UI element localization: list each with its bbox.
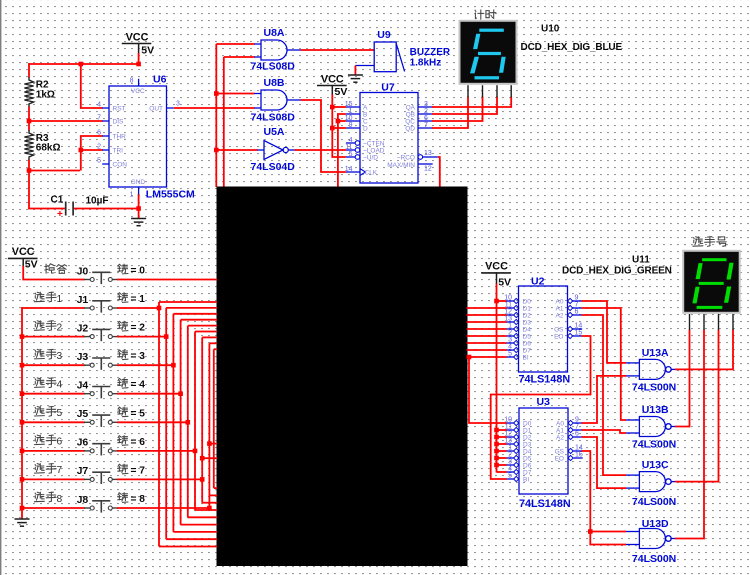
wire riser 3 bottom	[173, 531, 217, 533]
svg-text:D1: D1	[523, 306, 532, 313]
svg-text:4: 4	[508, 344, 512, 351]
label J6	[77, 438, 89, 449]
U13C output stub	[671, 481, 676, 483]
wire VCC to J0	[23, 258, 85, 279]
svg-text:DCD_HEX_DIG_GREEN: DCD_HEX_DIG_GREEN	[562, 265, 672, 276]
wire U13D out to U11	[675, 330, 704, 539]
svg-text:QB: QB	[406, 112, 415, 119]
pin 3 OUT stub	[167, 101, 181, 109]
svg-text:4: 4	[57, 380, 63, 391]
U7 CLK pin stub	[345, 166, 366, 176]
svg-text:J5: J5	[77, 409, 89, 420]
ground (switch bus)	[15, 519, 30, 526]
label 键 = 0	[118, 264, 128, 274]
wire riser 4 vertical	[180, 320, 182, 525]
label R3 value 68kΩ	[36, 133, 61, 154]
svg-text:5V: 5V	[25, 258, 38, 270]
buzzer U9 body	[374, 42, 404, 72]
svg-text:5V: 5V	[335, 86, 348, 98]
wire THR/TRI to bus	[29, 170, 80, 172]
nand-gate U13C body	[639, 472, 671, 492]
wire J7 to riser	[117, 478, 202, 480]
U3 input pin stubs	[504, 417, 531, 484]
wire U2 EO to U3 BI	[491, 336, 591, 479]
wire bus to J6	[21, 450, 85, 452]
wire U7 QB to U10	[432, 97, 497, 115]
wire bus to J7	[21, 478, 85, 480]
svg-text:8: 8	[57, 494, 63, 505]
wire riser 2 vertical	[165, 308, 167, 539]
svg-text:J1: J1	[77, 295, 89, 306]
power VCC symbol (switches) 5V	[8, 246, 38, 258]
svg-text:= 8: = 8	[131, 494, 146, 505]
U10 pins	[468, 85, 511, 97]
wire riser 8 vertical	[208, 343, 210, 508]
svg-text:1: 1	[130, 192, 134, 199]
label 74LS08D (U8A)	[251, 60, 296, 72]
svg-text:EO: EO	[554, 334, 563, 341]
wire hidden to U2 D5	[467, 335, 507, 337]
label 选手1	[34, 292, 56, 302]
U2 input pin stubs	[504, 295, 531, 362]
wire U6 OUT to U8B	[174, 107, 255, 109]
wire VCC to U3 D6	[497, 464, 507, 466]
power VCC symbol (U7) 5V	[317, 73, 347, 85]
wire U8A out to buzzer	[301, 49, 375, 51]
and-gate U8B body	[261, 90, 287, 110]
svg-text:TRI: TRI	[113, 148, 124, 155]
label LM555CM	[146, 188, 195, 200]
pin 7 DIS stub	[97, 115, 109, 122]
junction riser J2	[164, 334, 169, 339]
label U10	[541, 23, 560, 34]
label J5	[77, 409, 89, 420]
label J2	[77, 323, 89, 334]
label 键 = 6	[118, 436, 128, 446]
svg-text:74LS00N: 74LS00N	[632, 553, 676, 565]
nand-gate U13A body	[639, 359, 671, 379]
junction riser J8	[207, 506, 212, 511]
wire TRI	[81, 149, 103, 151]
svg-text:U5A: U5A	[264, 126, 285, 138]
wire VCC to U3 D2	[497, 436, 507, 438]
label 选手号	[693, 237, 726, 247]
label U11	[632, 254, 650, 265]
display U10 digit 6 segments	[470, 29, 506, 80]
svg-text:D6: D6	[523, 341, 532, 348]
wire VCC to node	[138, 44, 140, 65]
svg-text:= 2: = 2	[131, 323, 146, 334]
svg-text:U3: U3	[537, 396, 551, 408]
wire riser 9 top	[214, 348, 217, 350]
svg-text:15: 15	[575, 452, 583, 459]
wire to U8A input1	[216, 43, 254, 45]
label U2	[531, 275, 545, 287]
svg-text:D: D	[363, 126, 368, 133]
resistor R2	[24, 77, 33, 107]
svg-text:68kΩ: 68kΩ	[36, 143, 61, 154]
svg-text:6: 6	[97, 130, 101, 137]
junction riser J6	[193, 449, 198, 454]
U7 control pin stubs CTEN LOAD U/D	[345, 137, 360, 160]
junction riser J7	[200, 477, 205, 482]
label BUZZER 1.8kHz	[410, 47, 451, 69]
svg-text:A2: A2	[556, 313, 564, 320]
label U8B	[264, 77, 285, 89]
svg-text:5V: 5V	[498, 276, 511, 288]
label 74LS00N (U13A)	[632, 382, 676, 394]
junction bus J2	[20, 334, 25, 339]
svg-text:QD: QD	[405, 126, 415, 133]
wire C1 left	[28, 208, 65, 210]
power VCC symbol (555 section) 5V	[122, 31, 152, 43]
junction THR/TRI node	[27, 168, 32, 173]
junction bus J6	[20, 449, 25, 454]
svg-text:J4: J4	[77, 381, 89, 392]
label 键 = 3	[118, 350, 128, 360]
svg-text:74LS08D: 74LS08D	[251, 112, 296, 124]
wire to U7 D	[332, 127, 346, 129]
svg-text:1: 1	[508, 445, 512, 452]
wire VCC to U3 D3	[497, 443, 507, 445]
svg-text:6: 6	[575, 431, 579, 438]
junction U7.D	[330, 126, 335, 131]
svg-text:= 4: = 4	[131, 380, 146, 391]
junction bus J8	[20, 506, 25, 511]
wire hidden to U2 D1	[467, 307, 507, 309]
svg-text:VCC: VCC	[131, 88, 145, 95]
svg-text:4: 4	[97, 102, 101, 109]
wire riser 9 vertical	[213, 349, 215, 488]
svg-text:D2: D2	[523, 435, 532, 442]
resistor R3	[24, 130, 33, 160]
canvas left border	[0, 0, 1, 575]
pin 1 GND stub	[130, 187, 139, 199]
wire riser 3 top	[173, 313, 217, 315]
wire node to U7 B	[338, 114, 346, 187]
U13C input stubs	[625, 475, 639, 488]
wire bus to J3	[21, 364, 85, 366]
svg-text:CON: CON	[113, 162, 128, 169]
svg-text:4: 4	[349, 137, 353, 144]
U8B input stubs	[254, 94, 261, 109]
svg-text:BI: BI	[523, 477, 529, 484]
encoder U3 74LS148N body	[519, 408, 568, 494]
svg-text:7: 7	[424, 122, 428, 129]
wire J5 to riser	[117, 421, 188, 423]
ground (555)	[131, 219, 146, 226]
wire riser 4 bottom	[181, 524, 217, 526]
label J1	[77, 295, 89, 306]
wire to U7 A	[332, 106, 346, 108]
wire riser 8 bottom	[209, 494, 217, 496]
switch J2	[84, 329, 118, 341]
label U7	[381, 81, 395, 93]
svg-text:7: 7	[575, 302, 579, 309]
junction bus J5	[20, 420, 25, 425]
svg-text:2: 2	[57, 322, 63, 333]
nand-gate U13D body	[639, 529, 671, 549]
svg-text:9: 9	[575, 295, 579, 302]
svg-text:U2: U2	[531, 275, 545, 287]
label U8A	[264, 27, 285, 39]
U9 lower pin stub	[355, 65, 374, 67]
label U13C	[642, 459, 669, 471]
svg-text:~CTEN: ~CTEN	[363, 141, 385, 148]
svg-text:74LS148N: 74LS148N	[519, 498, 571, 510]
svg-text:1.8kHz: 1.8kHz	[410, 58, 442, 69]
wire U8B out to U7 CLK	[301, 100, 346, 172]
wire hidden to U2 D2	[467, 314, 507, 316]
svg-text:D5: D5	[523, 334, 532, 341]
svg-text:GND: GND	[131, 179, 146, 186]
junction U2.BI node	[467, 355, 472, 360]
wire hidden tap 2	[200, 456, 217, 461]
wire VCC to U3 D4	[497, 450, 507, 452]
junction GND node	[136, 206, 141, 211]
svg-text:U13A: U13A	[642, 347, 669, 359]
svg-text:A0: A0	[556, 299, 564, 306]
label DCD_HEX_DIG_GREEN	[562, 265, 672, 276]
U7 pin names	[363, 105, 416, 177]
svg-text:~RCO: ~RCO	[397, 155, 415, 162]
svg-text:9: 9	[349, 122, 353, 129]
wire bus to J4	[21, 393, 85, 395]
svg-text:BUZZER: BUZZER	[410, 47, 451, 58]
U13A input stubs	[625, 363, 639, 376]
pin 2 TRI stub	[97, 144, 109, 151]
label J7	[77, 466, 89, 477]
svg-text:74LS00N: 74LS00N	[632, 382, 676, 394]
label C1 value 10µF	[51, 194, 109, 206]
svg-text:2: 2	[97, 144, 101, 151]
svg-text:1kΩ: 1kΩ	[36, 90, 55, 101]
svg-text:6: 6	[575, 309, 579, 316]
label 键 = 8	[118, 493, 128, 503]
svg-text:7: 7	[575, 424, 579, 431]
svg-text:LM555CM: LM555CM	[146, 188, 195, 200]
wire hidden to U2 D6	[467, 342, 507, 344]
wire J0 to hidden	[117, 279, 217, 281]
svg-text:QA: QA	[406, 105, 416, 112]
svg-text:= 5: = 5	[131, 408, 146, 419]
svg-text:A: A	[363, 105, 368, 112]
display U11 digit 8 segments	[692, 258, 733, 309]
junction bus J3	[20, 363, 25, 368]
wire U3 GS to U13D	[582, 451, 626, 545]
wire DIS	[28, 120, 103, 122]
svg-text:10µF: 10µF	[86, 195, 109, 206]
wire U7 QC to U10	[432, 97, 483, 122]
svg-text:D7: D7	[523, 348, 532, 355]
svg-text:15: 15	[575, 330, 583, 337]
svg-text:BI: BI	[523, 355, 529, 362]
wire U2 A1 to U13B	[582, 308, 626, 420]
switch J0	[84, 272, 118, 284]
svg-text:CLK: CLK	[365, 170, 378, 177]
svg-text:VCC: VCC	[485, 261, 508, 273]
wire U2 A0 to U13A	[582, 301, 626, 363]
svg-text:= 1: = 1	[131, 294, 146, 305]
svg-text:~U/D: ~U/D	[363, 155, 378, 162]
wire riser 6 bottom	[195, 509, 217, 511]
svg-text:VCC: VCC	[126, 31, 149, 43]
svg-text:2: 2	[508, 452, 512, 459]
wire VCC to U3 D1	[497, 429, 507, 431]
wire U3 A0 to U13A	[582, 376, 626, 423]
label U9	[377, 29, 391, 41]
svg-text:= 7: = 7	[131, 465, 146, 476]
svg-text:2: 2	[508, 330, 512, 337]
svg-text:U8B: U8B	[264, 77, 285, 89]
junction U3.D4	[494, 449, 499, 454]
wire riser 5 top	[188, 325, 217, 327]
label U13A	[642, 347, 669, 359]
wire riser 7 top	[202, 336, 217, 338]
junction U7.A	[330, 105, 335, 110]
wire J1 to riser	[117, 307, 159, 309]
switch J8	[84, 501, 118, 513]
wire RST branch	[81, 64, 103, 108]
wire VCC stem (U7)	[331, 86, 333, 108]
wire C1 right	[74, 208, 139, 210]
wire riser 5 bottom	[188, 516, 217, 518]
wire top rail	[28, 63, 139, 65]
label 抢答	[45, 264, 67, 274]
svg-text:5: 5	[508, 473, 512, 480]
svg-text:3: 3	[508, 337, 512, 344]
svg-text:74LS148N: 74LS148N	[519, 373, 571, 385]
svg-text:J0: J0	[77, 266, 89, 277]
wire bus to J1	[21, 307, 85, 309]
wire riser 2 top	[166, 307, 217, 309]
label 选手2	[34, 321, 56, 331]
label 选手3	[34, 349, 56, 359]
label DCD_HEX_DIG_BLUE	[521, 42, 623, 53]
wire left ground bus	[21, 307, 23, 519]
nand-gate U13B body	[639, 417, 671, 437]
wire bus to J2	[21, 336, 85, 338]
hidden region (black box)	[217, 187, 468, 567]
junction U3.D6	[494, 463, 499, 468]
label 键 = 2	[118, 321, 128, 331]
wire hidden to U2 D7	[467, 349, 507, 351]
svg-text:14: 14	[575, 323, 583, 330]
label 键 = 5	[118, 407, 128, 417]
svg-text:U10: U10	[541, 23, 560, 34]
wire U7 QA to U10	[432, 97, 511, 108]
wire to U7 C	[338, 120, 346, 122]
wire riser 1 vertical	[158, 302, 160, 547]
svg-text:A1: A1	[556, 306, 564, 313]
junction U7.C tap	[336, 119, 341, 124]
wire U2 D0	[497, 300, 507, 302]
svg-text:D2: D2	[523, 313, 532, 320]
svg-text:U13B: U13B	[642, 404, 669, 416]
wire U7 QD to U10	[432, 97, 468, 129]
wire node A vertical (to U8A.1/U8B.1/U5A)	[215, 44, 217, 187]
svg-text:5: 5	[97, 158, 101, 165]
U7 output pin stubs QA-QD	[418, 101, 433, 129]
wire riser 5 vertical	[187, 326, 189, 518]
svg-text:VCC: VCC	[321, 73, 344, 85]
label 74LS148N (U3)	[519, 498, 571, 510]
svg-text:7: 7	[57, 465, 63, 476]
svg-text:D6: D6	[523, 463, 532, 470]
svg-text:D5: D5	[523, 456, 532, 463]
wire to U8A input2	[224, 56, 255, 58]
op-amp U6 LM555CM body	[109, 86, 167, 187]
wire hidden to U2 BI	[467, 356, 507, 358]
svg-text:D3: D3	[523, 320, 532, 327]
label J0	[77, 266, 89, 277]
pin 5 CON stub	[97, 158, 109, 165]
wire VCC to U3 D7	[497, 471, 507, 473]
label 选手6	[34, 435, 56, 445]
svg-text:EO: EO	[555, 456, 564, 463]
U13D output stub	[671, 538, 676, 540]
svg-text:1: 1	[508, 323, 512, 330]
encoder U2 74LS148N body	[519, 286, 568, 372]
svg-text:DIS: DIS	[113, 119, 125, 126]
wire riser 9 bottom	[214, 487, 217, 489]
svg-text:74LS08D: 74LS08D	[251, 60, 296, 72]
junction U13D.in1	[588, 529, 593, 534]
svg-text:DCD_HEX_DIG_BLUE: DCD_HEX_DIG_BLUE	[521, 42, 623, 53]
wire riser 2 bottom	[166, 538, 217, 540]
svg-text:= 0: = 0	[131, 266, 146, 277]
svg-text:3: 3	[57, 351, 63, 362]
wire GND pin to ground	[138, 194, 140, 219]
capacitor C1	[57, 202, 73, 220]
label J4	[77, 381, 89, 392]
svg-text:1: 1	[349, 108, 353, 115]
switch J7	[84, 472, 118, 484]
svg-text:7: 7	[97, 115, 101, 122]
junction U3.D1	[494, 428, 499, 433]
junction riser J4	[178, 391, 183, 396]
wire J4 to riser	[117, 393, 181, 395]
label 74LS148N (U2)	[519, 373, 571, 385]
junction U2.D0	[494, 299, 499, 304]
wire bus to J8	[21, 507, 85, 509]
wire riser 7 bottom	[202, 502, 217, 504]
svg-text:J2: J2	[77, 323, 89, 334]
label 键 = 7	[118, 464, 128, 474]
svg-text:RST: RST	[113, 106, 126, 113]
junction U3.D5	[494, 456, 499, 461]
svg-text:D4: D4	[523, 327, 532, 334]
U13D input stubs	[625, 532, 639, 545]
wire hidden to U2 D4	[467, 328, 507, 330]
label 键 = 1	[118, 293, 128, 303]
and-gate U8A body	[261, 40, 287, 60]
svg-text:U9: U9	[377, 29, 391, 41]
label 选手7	[34, 464, 56, 474]
svg-text:D7: D7	[523, 470, 532, 477]
U2 output pin stubs	[554, 295, 582, 341]
svg-text:~LOAD: ~LOAD	[363, 148, 385, 155]
svg-text:U7: U7	[381, 81, 395, 93]
wire riser 4 top	[181, 319, 217, 321]
U7 data pin stubs A B C D	[345, 101, 360, 129]
svg-text:THR: THR	[113, 134, 127, 141]
svg-text:74LS04D: 74LS04D	[251, 161, 296, 173]
svg-text:VCC: VCC	[12, 246, 35, 258]
svg-text:J8: J8	[77, 495, 89, 506]
wire riser 1 bottom	[159, 546, 217, 548]
junction U5A tap	[214, 148, 219, 153]
